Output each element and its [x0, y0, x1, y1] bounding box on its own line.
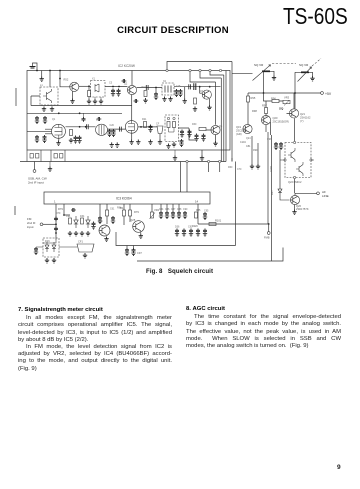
terminal AF LINE — [317, 192, 320, 195]
svg-text:C95: C95 — [204, 210, 209, 213]
connector tab 2 — [51, 150, 65, 162]
wire — [95, 97, 101, 99]
svg-text:R79: R79 — [56, 212, 61, 215]
capacitor — [73, 136, 77, 144]
wire squelch out — [198, 223, 269, 225]
resistor — [70, 130, 73, 136]
capacitor C86 — [165, 211, 169, 219]
wire — [106, 204, 108, 224]
connector tab 1 — [27, 150, 41, 162]
svg-text:2SD1757K: 2SD1757K — [296, 207, 309, 211]
ground — [183, 99, 187, 104]
wire — [294, 179, 296, 193]
node dot — [155, 87, 157, 89]
transistor Q4 — [202, 90, 211, 99]
node dot — [263, 92, 265, 94]
node dot — [85, 126, 87, 128]
svg-text:2SC1815(GR): 2SC1815(GR) — [273, 119, 290, 123]
wire — [257, 143, 259, 164]
resistor — [173, 122, 176, 128]
svg-text:SQ: SQ — [279, 107, 284, 111]
wire — [167, 62, 232, 71]
node — [186, 160, 188, 162]
diode D17 — [52, 242, 56, 252]
svg-text:2SA1162: 2SA1162 — [300, 115, 311, 119]
dashed link — [272, 59, 321, 67]
svg-text:R99: R99 — [253, 149, 258, 152]
svg-text:Q20: Q20 — [273, 116, 278, 120]
node dot — [88, 85, 90, 87]
capacitor — [77, 136, 81, 144]
resistor R102 — [123, 210, 126, 216]
transformer T2 — [96, 124, 108, 135]
capacitor — [182, 229, 186, 237]
diode D37 — [278, 189, 290, 200]
dashed box X3 — [165, 115, 179, 142]
wire — [55, 204, 57, 240]
ground — [115, 142, 119, 147]
svg-text:(Y): (Y) — [300, 119, 304, 123]
wire — [36, 240, 56, 247]
svg-text:C15: C15 — [176, 85, 181, 88]
ground — [129, 140, 133, 145]
wire — [131, 95, 133, 106]
wire — [131, 133, 133, 139]
wire — [137, 87, 162, 89]
transistor Q20 — [261, 115, 270, 124]
svg-text:Q25: Q25 — [130, 218, 136, 222]
capacitor C106 — [274, 142, 278, 150]
pin — [294, 176, 296, 178]
capacitor C81 — [98, 216, 102, 224]
capacitor — [111, 89, 115, 97]
capacitor C90 — [183, 211, 187, 219]
svg-text:R60: R60 — [228, 166, 233, 169]
node dot — [49, 70, 51, 72]
svg-text:D36: D36 — [175, 226, 180, 229]
wire — [64, 204, 70, 215]
wire — [66, 126, 96, 128]
IC3 op-amp block — [44, 192, 210, 204]
node dot — [79, 112, 81, 114]
node — [173, 117, 175, 119]
wire — [31, 96, 40, 106]
wire — [129, 204, 131, 222]
ground — [250, 164, 254, 169]
wire — [174, 86, 200, 88]
resistor R101 — [209, 223, 216, 226]
svg-text:T1: T1 — [96, 119, 99, 122]
ground — [110, 142, 114, 147]
edge bracket — [15, 88, 17, 106]
svg-text:C97: C97 — [137, 251, 142, 255]
wire — [99, 204, 101, 216]
pin — [310, 159, 312, 161]
wire — [123, 204, 125, 225]
capacitor — [43, 116, 47, 124]
wire — [200, 87, 203, 94]
wire — [59, 246, 77, 248]
capacitor — [86, 124, 88, 129]
svg-text:Q5: Q5 — [219, 125, 223, 128]
potentiometer SQ VR b — [301, 71, 309, 73]
pin — [284, 159, 286, 161]
capacitor row 2 — [175, 229, 179, 237]
svg-text:C61: C61 — [110, 208, 115, 211]
ground — [42, 107, 46, 112]
wire — [263, 72, 265, 93]
capacitor — [194, 134, 198, 142]
transistor Q3 — [127, 85, 136, 94]
svg-text:1: 1 — [54, 200, 56, 204]
node dot — [268, 223, 270, 225]
wire — [161, 204, 179, 211]
svg-text:(GR): (GR) — [236, 132, 242, 136]
capacitor — [120, 127, 122, 132]
dashed box FM mute — [285, 143, 311, 178]
ground — [45, 258, 49, 263]
resistor R96 — [272, 100, 279, 103]
wire — [268, 132, 272, 261]
svg-text:C104: C104 — [240, 141, 246, 144]
svg-text:R85: R85 — [196, 209, 201, 212]
svg-text:R226: R226 — [192, 225, 198, 228]
ground — [69, 138, 73, 143]
resistor — [88, 91, 91, 97]
wire — [179, 128, 197, 140]
ground — [56, 141, 60, 146]
node — [219, 160, 221, 162]
svg-text:Q1: Q1 — [52, 118, 56, 121]
transistor Q22a — [288, 148, 295, 162]
svg-text:C5: C5 — [109, 82, 113, 85]
svg-text:R79: R79 — [58, 207, 63, 211]
wire — [200, 72, 221, 78]
wire — [49, 162, 51, 167]
capacitor — [111, 129, 115, 137]
svg-text:C81: C81 — [246, 145, 251, 148]
wire — [60, 71, 70, 87]
wire AF out — [295, 193, 317, 195]
dashed box X2 — [162, 83, 174, 95]
svg-text:C84: C84 — [159, 208, 164, 211]
wire — [79, 85, 91, 87]
wire — [268, 224, 270, 232]
bottom rail — [137, 248, 283, 262]
svg-text:input: input — [27, 225, 34, 229]
resistor R97 — [265, 108, 268, 114]
wire — [295, 72, 301, 142]
diode D34 — [74, 216, 78, 228]
wire — [309, 72, 313, 76]
variable resistor VR2 — [151, 212, 154, 218]
capacitor — [203, 229, 207, 237]
diode D16 — [45, 242, 49, 252]
ground — [70, 99, 74, 104]
transistor Q5 FET — [52, 124, 66, 138]
svg-text:R101: R101 — [215, 219, 222, 223]
ceramic filter CF1 — [77, 244, 94, 252]
capacitor — [97, 117, 102, 121]
node dot — [140, 126, 142, 128]
node dot — [58, 112, 60, 114]
node dot — [36, 70, 38, 72]
node dot — [209, 86, 211, 88]
capacitor — [107, 129, 111, 137]
svg-text:IC3 KC064: IC3 KC064 — [116, 197, 132, 201]
capacitor C84 — [159, 211, 163, 219]
svg-text:Q21: Q21 — [300, 112, 305, 116]
capacitor — [34, 247, 38, 255]
resistor — [199, 128, 206, 131]
transistor Q21 — [289, 109, 298, 118]
node dot — [59, 70, 61, 72]
node dot — [59, 78, 61, 80]
svg-text:CF1: CF1 — [78, 240, 83, 244]
node — [166, 69, 168, 71]
capacitor — [194, 83, 196, 90]
wire — [287, 93, 295, 113]
transistor Q22b — [296, 162, 303, 176]
wire — [49, 71, 51, 88]
resistor R83 — [129, 210, 132, 216]
+5V rail — [248, 92, 321, 94]
capacitor C92 — [203, 212, 207, 220]
svg-text:IC2 KC20W: IC2 KC20W — [118, 64, 135, 68]
capacitor — [178, 89, 182, 97]
svg-text:L1: L1 — [40, 84, 43, 87]
ground — [168, 97, 172, 102]
wire — [270, 71, 274, 75]
ground — [310, 76, 314, 81]
svg-text:X2: X2 — [163, 80, 167, 83]
wire — [294, 205, 296, 210]
wire — [105, 86, 127, 88]
pin — [294, 141, 296, 143]
transistor Q19 — [243, 124, 252, 133]
wire — [232, 158, 236, 246]
ground — [292, 210, 296, 215]
capacitor — [116, 89, 120, 97]
node — [189, 69, 191, 71]
capacitor — [83, 113, 85, 117]
wire — [280, 159, 314, 161]
capacitor — [189, 229, 193, 237]
svg-text:R103: R103 — [270, 166, 273, 172]
resistor R226 — [195, 212, 198, 218]
diode in X1 — [95, 84, 99, 92]
wire — [209, 163, 220, 172]
wire — [265, 101, 267, 117]
node dot — [55, 232, 57, 234]
ground — [207, 105, 211, 110]
wire — [131, 106, 133, 121]
ground — [93, 99, 97, 104]
transistor Q23 — [99, 225, 110, 236]
transistor Q6 FET — [125, 121, 138, 134]
wire — [27, 131, 52, 133]
svg-text:R97: R97 — [262, 104, 267, 108]
resistor R81 — [81, 218, 84, 224]
crystal X2 — [165, 86, 171, 93]
node dot — [63, 214, 65, 216]
ground — [256, 164, 260, 169]
ceramic filter — [157, 126, 163, 134]
ground — [162, 97, 166, 102]
wire — [140, 231, 142, 234]
svg-text:FMB: FMB — [264, 236, 270, 240]
wire — [127, 246, 134, 249]
wire — [88, 86, 90, 99]
wire — [45, 129, 52, 134]
svg-text:14: 14 — [195, 200, 199, 204]
capacitor — [180, 130, 184, 138]
svg-text:R52: R52 — [64, 78, 69, 82]
diode D35 — [86, 216, 90, 228]
resistor — [167, 122, 170, 128]
svg-text:R10: R10 — [142, 86, 147, 89]
svg-text:2SC1815: 2SC1815 — [236, 128, 247, 132]
capacitor — [196, 229, 200, 237]
wire — [209, 99, 211, 105]
svg-text:R98: R98 — [252, 109, 257, 113]
ground — [193, 107, 197, 112]
svg-text:D34: D34 — [80, 215, 85, 218]
wire — [266, 122, 271, 135]
capacitor — [42, 135, 46, 143]
power stub — [33, 63, 38, 71]
capacitor C82 — [54, 227, 58, 232]
wire — [232, 73, 253, 75]
wire — [264, 93, 284, 101]
svg-text:SQ VR: SQ VR — [299, 63, 309, 67]
ground — [166, 144, 170, 149]
wire pin14 drop — [197, 204, 199, 224]
svg-text:D37: D37 — [270, 190, 274, 195]
wire — [43, 223, 56, 225]
wire — [138, 126, 157, 128]
wire — [206, 130, 216, 141]
node — [219, 69, 221, 71]
dashed box X1 — [91, 81, 106, 98]
capacitor — [154, 92, 158, 100]
svg-text:VR3: VR3 — [284, 96, 290, 100]
transistor Q1 — [43, 89, 52, 103]
ground — [136, 140, 140, 145]
terminal FM input — [40, 223, 43, 226]
wire — [190, 72, 216, 125]
edge mark — [14, 206, 16, 215]
svg-text:LINE: LINE — [322, 194, 329, 198]
svg-text:R21: R21 — [142, 118, 147, 121]
wire — [72, 91, 74, 99]
svg-text:Q19: Q19 — [236, 125, 241, 129]
terminal SSB input — [33, 170, 36, 173]
node — [209, 69, 211, 71]
svg-text:C87: C87 — [171, 208, 176, 211]
svg-text:R30: R30 — [192, 123, 197, 126]
svg-text:C93: C93 — [188, 226, 193, 229]
wire — [169, 128, 175, 133]
ground — [172, 142, 176, 147]
svg-text:Q24: Q24 — [246, 137, 251, 140]
ground — [143, 98, 147, 103]
ground — [213, 141, 217, 146]
ground — [272, 75, 276, 80]
wire — [131, 71, 133, 86]
wire — [210, 72, 224, 75]
capacitor C87 — [171, 211, 175, 219]
capacitor C88 — [177, 211, 181, 219]
ground — [50, 107, 54, 112]
svg-text:2nd IF input: 2nd IF input — [28, 181, 44, 185]
wire — [151, 204, 153, 212]
capacitor — [148, 125, 152, 133]
capacitor — [187, 130, 191, 138]
terminal blob — [30, 67, 36, 69]
terminal FMB — [267, 232, 270, 235]
wire — [108, 128, 126, 130]
shield box IC2 module — [27, 71, 230, 151]
capacitor — [131, 248, 135, 256]
wire — [34, 162, 36, 170]
svg-text:CF: CF — [156, 123, 160, 126]
node dot — [55, 223, 57, 225]
svg-text:SQ VR: SQ VR — [254, 63, 264, 67]
capacitor — [134, 99, 139, 103]
resistor R80 — [69, 218, 72, 224]
wire right edge drops — [226, 62, 232, 162]
node — [167, 117, 169, 119]
svg-text:C88: C88 — [177, 208, 182, 211]
svg-text:C86: C86 — [165, 208, 170, 211]
ground — [74, 231, 78, 236]
svg-text:R96: R96 — [271, 97, 276, 101]
svg-text:+5V: +5V — [325, 92, 332, 96]
ground — [99, 99, 103, 104]
capacitor C105 — [279, 142, 283, 150]
transistor Q25 — [133, 221, 145, 233]
wire — [200, 86, 221, 88]
wire lower rail — [27, 112, 122, 114]
node dot — [79, 126, 81, 128]
wire bus right — [221, 75, 224, 162]
sub box bottom — [116, 232, 236, 246]
capacitor — [179, 139, 183, 147]
ground — [148, 140, 152, 145]
wire — [251, 136, 253, 164]
ground — [83, 253, 87, 258]
ground — [87, 99, 91, 104]
ground — [80, 231, 84, 236]
capacitor C91 — [71, 208, 76, 212]
capacitor — [35, 135, 39, 143]
svg-text:C83: C83 — [98, 220, 103, 223]
resistor — [144, 91, 147, 97]
ground — [40, 77, 44, 82]
ground — [48, 167, 52, 172]
svg-text:C93: C93 — [267, 138, 272, 141]
wire — [41, 71, 43, 77]
node dot — [112, 86, 114, 88]
capacitor — [122, 79, 127, 83]
ground — [104, 237, 108, 242]
node — [208, 160, 210, 162]
dashed box D16 D17 — [43, 238, 59, 257]
svg-text:Q22 FMIC2: Q22 FMIC2 — [288, 180, 302, 184]
ground — [52, 258, 56, 263]
wire — [247, 93, 249, 124]
